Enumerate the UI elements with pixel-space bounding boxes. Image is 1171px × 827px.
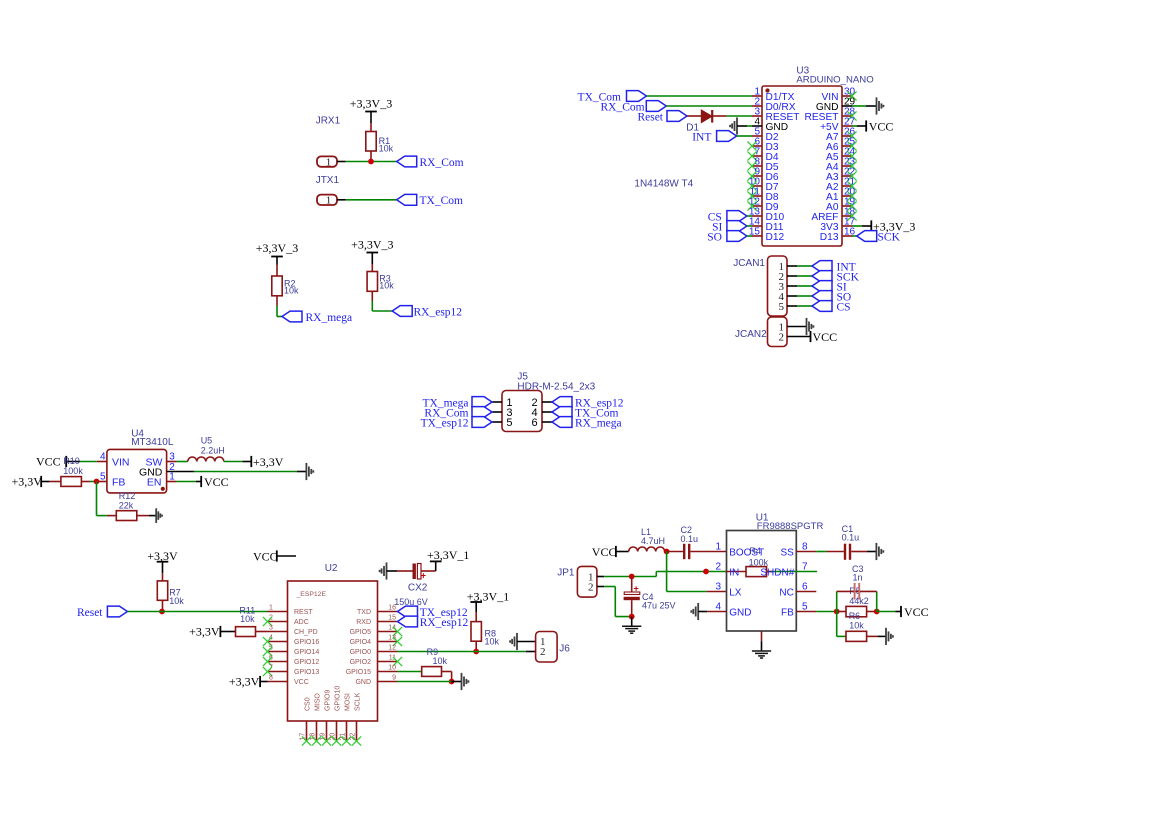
net flag RX_esp12 xyxy=(392,306,412,317)
svg-text:2: 2 xyxy=(588,582,594,594)
svg-text:Reset: Reset xyxy=(77,607,103,619)
svg-text:3: 3 xyxy=(269,625,273,632)
svg-text:0.1u: 0.1u xyxy=(681,534,699,544)
ground at C1 xyxy=(867,551,876,553)
U1 pin8 SS to C1 xyxy=(796,551,816,553)
svg-text:10k: 10k xyxy=(433,656,448,666)
ground below C4 xyxy=(631,617,633,627)
svg-text:+3,3V_1: +3,3V_1 xyxy=(427,548,469,562)
wire INT to pin5 xyxy=(737,135,752,137)
junction R1/RX_Com xyxy=(368,159,374,165)
svg-text:D12: D12 xyxy=(766,232,785,243)
svg-text:FB: FB xyxy=(112,476,125,488)
junction R9/GND xyxy=(449,679,455,685)
wire JTX1 to TX_Com xyxy=(346,199,397,201)
svg-text:RX_esp12: RX_esp12 xyxy=(414,306,463,318)
U2 pin 19 GPIO9 xyxy=(326,721,328,741)
svg-text:EN: EN xyxy=(147,476,162,488)
svg-text:J6: J6 xyxy=(559,643,570,654)
U3 pin 13 D10 xyxy=(752,215,762,217)
svg-text:RX_mega: RX_mega xyxy=(575,417,622,429)
svg-text:CX2: CX2 xyxy=(408,582,428,593)
svg-text:RX_esp12: RX_esp12 xyxy=(420,617,469,629)
U3 pin 8 D5 xyxy=(752,165,762,167)
U1 bottom pad pin xyxy=(761,631,763,641)
wire RX_Com to pin2 xyxy=(666,105,752,107)
junction FB node xyxy=(94,479,100,485)
svg-text:1: 1 xyxy=(326,156,332,168)
svg-text:+3,3V: +3,3V xyxy=(189,625,220,639)
U1 LX pin3 stub xyxy=(707,591,727,593)
svg-text:+3,3V: +3,3V xyxy=(147,549,178,563)
svg-text:+: + xyxy=(421,571,426,581)
U2 pin 18 MISO xyxy=(316,721,318,741)
U3 pin 3 RESET xyxy=(752,115,762,117)
U3 pin 14 D11 xyxy=(752,225,762,227)
svg-text:GPIO10: GPIO10 xyxy=(335,686,342,711)
svg-text:2.2uH: 2.2uH xyxy=(201,445,225,455)
U2 pin 9 GND xyxy=(378,681,398,683)
capacitor C4 47u 25V xyxy=(631,577,633,593)
svg-text:GND: GND xyxy=(729,607,751,618)
ground at R12 xyxy=(149,515,157,517)
U2 pin 1 REST xyxy=(268,611,288,613)
U3 pin 11 D8 xyxy=(752,195,762,197)
svg-text:10k: 10k xyxy=(849,620,864,630)
svg-text:_ESP12E: _ESP12E xyxy=(296,591,327,598)
svg-text:LX: LX xyxy=(729,587,742,598)
svg-text:+3,3V_3: +3,3V_3 xyxy=(350,97,392,111)
svg-text:+3,3V_3: +3,3V_3 xyxy=(256,241,298,255)
U3 pin 30 VIN xyxy=(842,95,852,97)
svg-text:0.1u: 0.1u xyxy=(842,533,860,543)
wire R10 to FB pin5 xyxy=(90,481,97,483)
U3 pin 10 D7 xyxy=(752,185,762,187)
U3 pin 20 A1 xyxy=(842,195,852,197)
svg-text:9: 9 xyxy=(392,675,396,682)
svg-text:GPIO12: GPIO12 xyxy=(294,659,319,666)
U2 pin 20 GPIO10 xyxy=(336,721,338,741)
U3 pin 7 D4 xyxy=(752,155,762,157)
svg-text:VCC: VCC xyxy=(294,679,309,686)
U2 pin 16 TXD xyxy=(378,611,398,613)
svg-text:ADC: ADC xyxy=(294,619,309,626)
power flag VCC (U3 pin27) xyxy=(852,125,857,127)
svg-text:NC: NC xyxy=(779,587,793,598)
svg-text:VCC: VCC xyxy=(36,455,61,469)
svg-text:RXD: RXD xyxy=(356,619,371,626)
wire Reset to U2 pin1 xyxy=(127,611,267,613)
U2 pin 17 CS0 xyxy=(306,721,308,741)
ground below U1 xyxy=(752,650,771,652)
U2 pin 4 GPIO16 xyxy=(268,641,288,643)
net flag TX_Com xyxy=(397,194,417,205)
junction R8/GPIO0 xyxy=(473,649,479,655)
wire LX branch xyxy=(666,552,668,592)
svg-text:U2: U2 xyxy=(325,563,338,574)
U1 pin6 NC stub xyxy=(796,591,816,593)
svg-text:CS0: CS0 xyxy=(305,697,312,711)
U3 pin 19 A0 xyxy=(842,205,852,207)
U3 pin 25 A6 xyxy=(842,145,852,147)
svg-text:GPIO2: GPIO2 xyxy=(350,659,372,666)
ground at J6 pin1 xyxy=(516,633,518,650)
svg-text:10k: 10k xyxy=(284,286,299,296)
net flag RX_Com xyxy=(397,156,417,167)
U3 pin 9 D6 xyxy=(752,175,762,177)
U1 pin5 FB wire xyxy=(796,611,816,613)
U2 pin 21 MOSI xyxy=(346,721,348,741)
svg-text:MISO: MISO xyxy=(315,693,322,711)
svg-text:ARDUINO_NANO: ARDUINO_NANO xyxy=(796,75,873,86)
svg-text:5: 5 xyxy=(506,417,512,429)
svg-text:CS: CS xyxy=(837,301,851,313)
svg-text:4.7uH: 4.7uH xyxy=(641,536,665,546)
U3 pin 26 A7 xyxy=(842,135,852,137)
U2 pin 11 GPIO2 xyxy=(378,661,398,663)
svg-text:MOSI: MOSI xyxy=(345,693,352,711)
power flag VCC (JCAN2 pin2) xyxy=(787,336,811,338)
svg-text:VCC: VCC xyxy=(869,120,894,134)
svg-text:IN: IN xyxy=(729,567,739,578)
svg-text:MT3410L: MT3410L xyxy=(131,437,174,448)
wire D1 to U3 pin3 xyxy=(713,115,726,117)
U3 pin 27 +5V xyxy=(842,125,852,127)
U3 pin 23 A4 xyxy=(842,165,852,167)
U3 pin 5 D2 xyxy=(752,135,762,137)
svg-text:2: 2 xyxy=(779,331,785,343)
svg-text:GPIO13: GPIO13 xyxy=(294,669,319,676)
U2 pin 22 SCLK xyxy=(356,721,358,741)
resistor R9 10k body (GPIO15) xyxy=(398,671,422,673)
svg-text:+3,3V: +3,3V xyxy=(229,675,260,689)
diode D1 xyxy=(687,115,701,117)
svg-text:JCAN2: JCAN2 xyxy=(735,329,767,340)
resistor R8 10k xyxy=(475,612,477,622)
junction R7/Reset xyxy=(159,609,165,615)
svg-text:CH_PD: CH_PD xyxy=(294,629,318,636)
junction L1/C2/LX xyxy=(664,549,670,555)
svg-text:RX_Com: RX_Com xyxy=(420,157,464,169)
U2 pin 14 GPIO5 xyxy=(378,631,398,633)
U2 pin 15 RXD xyxy=(378,621,398,623)
svg-text:VCC: VCC xyxy=(253,550,278,564)
U2 pin 7 GPIO13 xyxy=(268,671,288,673)
svg-text:FB: FB xyxy=(781,607,794,618)
svg-text:GPIO14: GPIO14 xyxy=(294,649,319,656)
junction JP1/C4 xyxy=(629,574,635,580)
svg-text:JP1: JP1 xyxy=(557,567,575,578)
net flag RX_mega xyxy=(282,311,302,322)
svg-text:U5: U5 xyxy=(201,436,213,446)
wire FB node down to R12 xyxy=(96,482,98,516)
svg-text:TX_Com: TX_Com xyxy=(420,195,464,207)
svg-text:2: 2 xyxy=(540,646,546,658)
net flag RX_esp12 (U2 pin15) xyxy=(398,616,418,627)
ground at CX2 xyxy=(386,562,388,579)
svg-text:R4: R4 xyxy=(749,546,761,556)
svg-text:1N4148W T4: 1N4148W T4 xyxy=(634,178,693,189)
svg-text:D13: D13 xyxy=(820,232,839,243)
svg-text:10k: 10k xyxy=(240,614,255,624)
wire JP1 pin1 to IN xyxy=(597,576,604,578)
U3 pin 29 GND xyxy=(842,105,852,107)
ground at U3 pin4 xyxy=(736,117,738,134)
svg-text:JRX1: JRX1 xyxy=(316,116,341,127)
svg-text:1: 1 xyxy=(269,605,273,612)
svg-text:+3,3V: +3,3V xyxy=(253,455,284,469)
connector J6 xyxy=(536,632,558,663)
svg-text:GPIO16: GPIO16 xyxy=(294,639,319,646)
U3 pin 21 A2 xyxy=(842,185,852,187)
resistor R11 10k body xyxy=(236,627,256,637)
U2 pin 10 GPIO15 xyxy=(378,671,398,673)
svg-text:SHDN#: SHDN# xyxy=(760,567,794,578)
ground at U1 GND pin4 xyxy=(697,603,699,620)
U2 pin 8 VCC xyxy=(268,681,288,683)
wire VCC to VIN pin4 xyxy=(80,461,97,463)
svg-text:VIN: VIN xyxy=(112,456,130,468)
U3 pin 6 D3 xyxy=(752,145,762,147)
U2 pin 12 GPIO0 xyxy=(378,651,398,653)
U3 pin 4 GND xyxy=(752,125,762,127)
U3 pin 18 AREF xyxy=(842,215,852,217)
svg-text:1: 1 xyxy=(715,542,721,553)
ground at U4 GND pin2 xyxy=(167,471,194,473)
wire U2 GND pin9 to ground xyxy=(398,681,452,683)
U2 pin 3 CH_PD xyxy=(268,631,288,633)
ground at R6 xyxy=(878,635,886,637)
svg-text:+3,3V_3: +3,3V_3 xyxy=(351,238,393,252)
svg-text:GPIO15: GPIO15 xyxy=(346,669,371,676)
power flag VCC (U4 EN pin1) xyxy=(167,481,177,483)
junction C4/ground xyxy=(629,614,635,620)
svg-text:REST: REST xyxy=(294,609,313,616)
wire GPIO0 to J6 pin2 xyxy=(398,651,526,653)
power flag +3,3V (after U5) xyxy=(224,461,243,463)
U3 pin 16 D13 xyxy=(842,235,852,237)
wire JP1 pin2 to C4 bottom xyxy=(597,586,604,588)
wire R2 to RX_mega xyxy=(276,306,278,317)
svg-text:6: 6 xyxy=(532,417,538,429)
svg-text:SO: SO xyxy=(707,231,722,243)
svg-text:+: + xyxy=(634,583,639,593)
svg-text:Reset: Reset xyxy=(637,112,663,124)
U3 pin 1 D1/TX xyxy=(752,95,762,97)
svg-text:VCC: VCC xyxy=(904,605,929,619)
net flag SCK (U3 pin16) xyxy=(852,235,857,237)
U2 pin 13 GPIO4 xyxy=(378,641,398,643)
svg-text:8: 8 xyxy=(269,675,273,682)
U3 pin 24 A5 xyxy=(842,155,852,157)
svg-text:10k: 10k xyxy=(379,281,394,291)
power flag +3,3V_1 (CX2) xyxy=(430,560,442,562)
svg-text:INT: INT xyxy=(692,132,711,144)
svg-text:100k: 100k xyxy=(749,558,769,568)
wire SHDN# pin7 xyxy=(772,571,817,573)
resistor R4 100k body (IN to SHDN#) xyxy=(727,571,747,573)
svg-text:JTX1: JTX1 xyxy=(316,175,340,186)
U2 pin 2 ADC xyxy=(268,621,288,623)
svg-text:100k: 100k xyxy=(63,466,83,476)
svg-text:GND: GND xyxy=(355,679,371,686)
junction FB left xyxy=(834,609,840,615)
svg-text:5: 5 xyxy=(779,301,785,313)
wire C2 to BOOST pin1 xyxy=(690,551,726,553)
resistor R2 10k xyxy=(276,265,278,277)
svg-text:1: 1 xyxy=(326,195,332,207)
svg-text:15: 15 xyxy=(388,615,396,622)
ground at U3 pin29 xyxy=(852,105,866,107)
svg-text:1n: 1n xyxy=(853,572,863,582)
svg-text:GPIO4: GPIO4 xyxy=(350,639,372,646)
U3 pin 15 D12 xyxy=(752,235,762,237)
svg-text:10: 10 xyxy=(388,665,396,672)
resistor R3 10k xyxy=(371,264,373,272)
junction FB right xyxy=(874,609,880,615)
power flag +3,3V_3 (U3 pin17) xyxy=(852,225,862,227)
svg-text:+3,3V: +3,3V xyxy=(12,475,43,489)
ground at JCAN2 pin1 xyxy=(787,326,807,328)
svg-text:10k: 10k xyxy=(169,596,184,606)
resistor R7 10k xyxy=(162,573,164,581)
wire TX_Com to pin1 xyxy=(647,95,753,97)
svg-text:10k: 10k xyxy=(485,636,500,646)
svg-text:RX_mega: RX_mega xyxy=(306,312,353,324)
U3 pin 17 3V3 xyxy=(842,225,852,227)
U3 pin 28 RESET xyxy=(842,115,852,117)
svg-text:VCC: VCC xyxy=(813,330,838,344)
wire R3 to RX_esp12 xyxy=(371,301,373,311)
resistor R1 10k xyxy=(370,123,372,132)
svg-text:10k: 10k xyxy=(379,143,394,153)
svg-text:2: 2 xyxy=(715,562,721,573)
svg-text:JCAN1: JCAN1 xyxy=(733,258,765,269)
svg-text:VCC: VCC xyxy=(592,545,617,559)
svg-text:12: 12 xyxy=(388,645,396,652)
ground at U2 pin9 xyxy=(461,673,463,690)
svg-text:TXD: TXD xyxy=(357,609,371,616)
svg-text:22k: 22k xyxy=(119,500,134,510)
net flag TX_esp12 (U2 pin16) xyxy=(398,606,418,617)
capacitor CX2 150u 6V xyxy=(397,570,413,572)
svg-text:3: 3 xyxy=(715,582,721,593)
svg-text:47u 25V: 47u 25V xyxy=(642,601,676,611)
svg-text:GPIO5: GPIO5 xyxy=(350,629,372,636)
power flag VCC (FB divider) xyxy=(877,611,896,613)
wire JRX1 to RX_Com xyxy=(346,161,397,163)
U3 pin 2 D0/RX xyxy=(752,105,762,107)
U2 pin 5 GPIO14 xyxy=(268,651,288,653)
junction IN pin2 xyxy=(703,569,709,575)
svg-text:SCK: SCK xyxy=(878,231,901,243)
svg-text:TX_esp12: TX_esp12 xyxy=(421,417,469,429)
U3 pin 22 A3 xyxy=(842,175,852,177)
U2 pin 6 GPIO12 xyxy=(268,661,288,663)
svg-text:SCLK: SCLK xyxy=(355,692,362,711)
U3 pin 12 D9 xyxy=(752,205,762,207)
svg-text:GPIO0: GPIO0 xyxy=(350,649,372,656)
svg-text:SS: SS xyxy=(780,547,794,558)
svg-text:7: 7 xyxy=(802,562,808,573)
svg-text:GPIO9: GPIO9 xyxy=(325,689,332,711)
svg-text:R10: R10 xyxy=(63,456,80,466)
svg-text:VCC: VCC xyxy=(204,475,229,489)
